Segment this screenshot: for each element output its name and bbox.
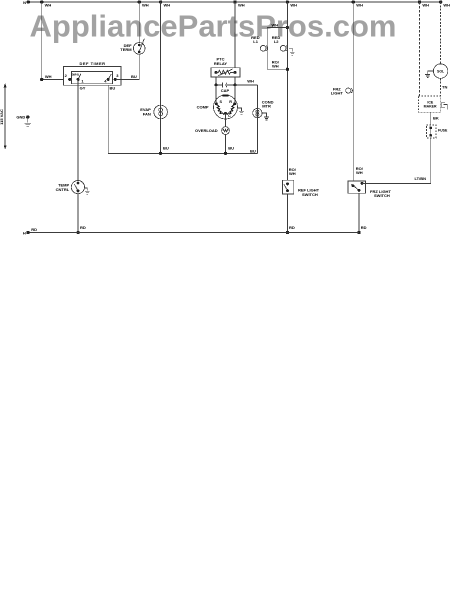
svg-text:WH: WH bbox=[238, 3, 245, 8]
svg-text:WH: WH bbox=[290, 3, 297, 8]
node H bbox=[23, 227, 37, 235]
ground at compressor bbox=[238, 108, 245, 114]
svg-text:GY: GY bbox=[80, 85, 86, 90]
svg-text:BK: BK bbox=[433, 116, 439, 121]
label RO/WH at frz switch bbox=[356, 166, 364, 175]
wire REF branch drop bbox=[286, 2, 288, 180]
node N bbox=[23, 0, 30, 5]
switch REF LIGHT SWITCH bbox=[282, 180, 293, 194]
label GND bbox=[16, 115, 25, 120]
svg-text:RELAY: RELAY bbox=[214, 61, 228, 66]
switch FRZ LIGHT SWITCH bbox=[348, 181, 366, 193]
node WH junction 6 bbox=[352, 0, 363, 7]
svg-text:115 VAC: 115 VAC bbox=[0, 109, 4, 125]
label OVERLOAD bbox=[195, 128, 218, 133]
label BU under pin4 bbox=[110, 85, 116, 90]
node WH junction 3 bbox=[159, 0, 170, 7]
label COND MTR bbox=[262, 99, 274, 108]
svg-text:RD: RD bbox=[31, 227, 37, 232]
svg-text:WH: WH bbox=[272, 22, 279, 27]
node branch top bbox=[272, 22, 290, 29]
node RD temp bbox=[76, 225, 85, 234]
node branch bottom bbox=[286, 68, 289, 71]
svg-text:LIGHT: LIGHT bbox=[331, 91, 344, 96]
lamp FRZ LIGHT bbox=[346, 88, 353, 93]
label FUSE bbox=[438, 128, 448, 132]
label FRZ LIGHT SWITCH bbox=[370, 189, 391, 198]
thermostat TEMP CNTRL bbox=[71, 181, 84, 194]
label BU right end bbox=[250, 148, 256, 153]
wire top bus N bbox=[28, 1, 440, 3]
svg-text:BU: BU bbox=[163, 146, 169, 151]
svg-text:CNTRL: CNTRL bbox=[56, 187, 70, 192]
ground at temp control bbox=[85, 188, 90, 194]
svg-text:WH: WH bbox=[142, 3, 149, 8]
capacitor CAP bbox=[215, 77, 237, 104]
svg-text:BU: BU bbox=[110, 85, 116, 90]
label (WH) bbox=[72, 73, 79, 77]
wire ref switch to bus bbox=[287, 194, 289, 233]
svg-text:3: 3 bbox=[116, 73, 119, 78]
label PTC RELAY bbox=[214, 57, 228, 66]
wire icemaker to fuse bbox=[430, 112, 432, 125]
node WH junction 2 bbox=[138, 0, 149, 7]
node WH junction 7 bbox=[418, 0, 429, 7]
svg-text:L1: L1 bbox=[253, 39, 258, 44]
label LT/BN bbox=[415, 176, 427, 181]
svg-text:(WH): (WH) bbox=[72, 73, 79, 77]
label REF LIGHT SWITCH bbox=[298, 188, 320, 197]
icemaker ICE MAKER box bbox=[419, 96, 441, 112]
label DEF TERM bbox=[120, 43, 132, 52]
svg-text:BU: BU bbox=[131, 74, 137, 79]
wire LT/BN bbox=[362, 138, 431, 184]
label SOL bbox=[437, 70, 445, 74]
node WH junction 8 bbox=[439, 0, 450, 7]
label FRZ LIGHT bbox=[331, 87, 344, 96]
label RED L1 bbox=[251, 35, 260, 44]
svg-text:H: H bbox=[23, 230, 26, 235]
svg-text:N: N bbox=[23, 0, 26, 5]
ground at sol bbox=[425, 71, 433, 77]
label GY bbox=[80, 85, 86, 90]
label DEF TIMER bbox=[79, 61, 105, 66]
svg-text:SWITCH: SWITCH bbox=[302, 192, 318, 197]
wire BU bottom of motor section bbox=[108, 85, 257, 153]
svg-text:GND: GND bbox=[16, 115, 25, 120]
wire WH to cond motor bbox=[235, 84, 257, 86]
svg-text:FAN: FAN bbox=[143, 111, 151, 116]
label BK bbox=[433, 116, 439, 121]
label ICE MAKER bbox=[424, 100, 437, 108]
thermostat DEF TERM bbox=[133, 2, 145, 54]
node WH junction 5 bbox=[286, 0, 297, 7]
node WH junction 1 bbox=[40, 0, 51, 7]
node RD frz bbox=[357, 225, 366, 234]
svg-text:SWITCH: SWITCH bbox=[374, 193, 390, 198]
svg-text:MTR: MTR bbox=[262, 104, 271, 109]
node RD ref bbox=[286, 225, 295, 234]
wire temp control to bus bbox=[77, 194, 79, 233]
svg-text:COMP: COMP bbox=[197, 104, 209, 109]
label CAP bbox=[221, 88, 230, 93]
svg-text:MAKER: MAKER bbox=[424, 104, 437, 108]
svg-text:WH: WH bbox=[356, 170, 363, 175]
connector icemaker plug bbox=[442, 102, 447, 109]
label RO/WH upper bbox=[272, 59, 280, 68]
svg-text:WH: WH bbox=[272, 63, 279, 68]
svg-text:TERM: TERM bbox=[120, 47, 132, 52]
label EVAP FAN bbox=[140, 107, 151, 116]
svg-text:R: R bbox=[229, 100, 232, 104]
svg-text:SOL: SOL bbox=[437, 70, 445, 74]
svg-text:CAP: CAP bbox=[221, 88, 230, 93]
svg-text:AppliancePartsPros.com: AppliancePartsPros.com bbox=[30, 8, 397, 43]
pin 4 with lever bbox=[107, 74, 112, 81]
label TEMP CNTRL bbox=[56, 183, 70, 192]
watermark AppliancePartsPros.com bbox=[30, 8, 397, 43]
svg-text:FUSE: FUSE bbox=[438, 128, 448, 132]
lamp RED L1 bbox=[260, 45, 267, 51]
timer DEF TIMER box bbox=[64, 67, 122, 86]
solenoid SOL bbox=[433, 2, 447, 96]
ground at cond motor bbox=[262, 113, 269, 120]
node WH at timer pin2 feed bbox=[40, 74, 52, 81]
svg-text:TN: TN bbox=[442, 84, 447, 89]
label RO/WH at ref switch bbox=[289, 167, 297, 176]
wire bottom bus H bbox=[28, 232, 359, 234]
label WH bbox=[247, 79, 254, 84]
wire dashed icemaker drop bbox=[419, 2, 421, 96]
pin 2 bbox=[65, 73, 72, 81]
node WH junction 4 bbox=[233, 0, 244, 7]
ground at lamp L2 bbox=[289, 48, 294, 55]
wire pin3 to def term bbox=[116, 54, 139, 79]
wire lamp L1 branch bbox=[267, 28, 287, 70]
node BU overload bbox=[224, 146, 234, 156]
label TN bbox=[442, 84, 447, 89]
svg-text:RD: RD bbox=[289, 225, 295, 230]
svg-text:L2: L2 bbox=[274, 39, 279, 44]
svg-text:OVERLOAD: OVERLOAD bbox=[195, 128, 218, 133]
supply arrow 115 VAC bbox=[4, 83, 7, 149]
svg-text:RD: RD bbox=[361, 225, 367, 230]
svg-text:1: 1 bbox=[81, 78, 84, 83]
svg-text:WH: WH bbox=[164, 3, 171, 8]
relay PTC RELAY box bbox=[211, 2, 240, 77]
label RED L2 bbox=[272, 35, 281, 44]
svg-text:BU: BU bbox=[228, 146, 234, 151]
pin 3 bbox=[114, 73, 120, 81]
svg-text:LT/BN: LT/BN bbox=[415, 176, 427, 181]
svg-text:WH: WH bbox=[247, 79, 254, 84]
wire drop to def timer pin 2 bbox=[42, 2, 64, 79]
overload OVERLOAD bbox=[222, 114, 230, 154]
node BU evap bbox=[159, 146, 169, 156]
svg-text:WH: WH bbox=[289, 171, 296, 176]
svg-text:WH: WH bbox=[422, 3, 429, 8]
svg-text:2: 2 bbox=[65, 73, 68, 78]
wire GY temp control bbox=[77, 79, 79, 180]
wire frz switch to bus bbox=[358, 193, 360, 232]
compressor COMP bbox=[214, 95, 238, 119]
svg-text:S: S bbox=[220, 100, 223, 104]
label S R C bbox=[220, 100, 233, 118]
motor EVAP FAN bbox=[154, 2, 168, 153]
svg-text:C: C bbox=[228, 114, 231, 118]
svg-text:RD: RD bbox=[80, 225, 86, 230]
svg-text:BU: BU bbox=[250, 148, 256, 153]
svg-text:WH: WH bbox=[443, 3, 450, 8]
svg-text:WH: WH bbox=[45, 3, 52, 8]
label 115 VAC bbox=[0, 109, 4, 125]
motor COND MTR bbox=[253, 85, 262, 153]
pin 1 with lever bbox=[77, 74, 81, 81]
svg-text:DEF TIMER: DEF TIMER bbox=[79, 61, 105, 66]
lamp RED L2 bbox=[280, 45, 287, 51]
ground GND bbox=[25, 115, 32, 126]
wire FRZ drop bbox=[352, 2, 354, 181]
label COMP bbox=[197, 104, 209, 109]
label BU pin3 wire bbox=[131, 74, 137, 79]
svg-text:WH: WH bbox=[356, 3, 363, 8]
fuse FUSE bbox=[427, 125, 437, 138]
svg-text:WH: WH bbox=[45, 74, 52, 79]
